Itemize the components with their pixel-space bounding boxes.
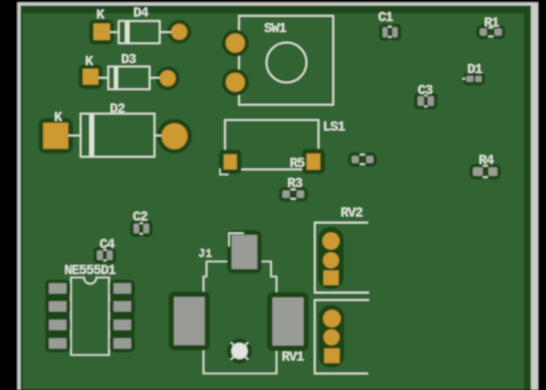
pad C3-2 — [428, 96, 434, 106]
pad D3 cathode halo — [79, 65, 103, 90]
pad D4 anode (round) — [171, 24, 187, 40]
pad J1 left — [174, 297, 205, 345]
pad D4 anode halo — [167, 20, 191, 44]
C3 silk dashes — [424, 95, 427, 97]
diode D3 — [79, 53, 180, 91]
svg-text:RV1: RV1 — [282, 351, 305, 366]
pad J1 right halo — [267, 292, 309, 351]
svg-text:C3: C3 — [418, 84, 433, 99]
trimmer RV1 (lower footprint) — [315, 300, 369, 374]
pad SW1-2 halo — [222, 69, 249, 96]
RV2 upper outline — [315, 223, 369, 293]
svg-text:D1: D1 — [467, 63, 482, 78]
U1 left pads halo column — [46, 280, 71, 353]
pad R4-2 — [489, 167, 498, 176]
LS1 pin1 corner mark — [220, 168, 229, 174]
pad SW1-1 — [226, 34, 245, 53]
pad RV1-1 (round) — [323, 310, 341, 328]
diode D3 body outline — [108, 67, 149, 90]
diode D3 cathode band — [114, 67, 118, 90]
pad D4 cathode (square) — [94, 24, 111, 41]
pad R3-2 — [297, 191, 304, 198]
pad J1 top — [232, 235, 258, 269]
pad U1-5 — [114, 338, 131, 348]
resistor R1 — [476, 16, 505, 39]
diode D4 — [89, 7, 191, 45]
J1 pin1 corner mark — [229, 233, 244, 246]
svg-text:SW1: SW1 — [264, 22, 287, 37]
pad U1-2 — [49, 301, 66, 311]
pad C2-1 — [134, 224, 139, 234]
pad U1-6 halo — [110, 316, 136, 334]
wire D4 right lead — [160, 31, 172, 33]
pad RV2-1 (round) — [322, 232, 339, 249]
svg-text:D2: D2 — [110, 102, 125, 117]
pad U1-4 halo — [45, 335, 71, 353]
pad D3 anode halo — [156, 66, 180, 90]
diode D4 cathode band — [125, 21, 130, 43]
pad LS1-2 — [307, 154, 321, 170]
buzzer LS1 — [219, 120, 345, 175]
pad U1-3 halo — [45, 316, 71, 334]
svg-text:LS1: LS1 — [323, 120, 346, 135]
pad C4-1 — [97, 251, 103, 261]
pad U1-2 halo — [45, 298, 71, 316]
svg-text:R4: R4 — [479, 154, 494, 169]
pad C2 halo — [130, 220, 142, 237]
RV1 lower outline — [315, 300, 369, 374]
pad R1-1 — [480, 29, 487, 36]
wire D3 right lead — [150, 77, 160, 79]
bottom shade — [23, 389, 524, 390]
pad U1-7 — [114, 301, 131, 311]
capacitor C4 — [93, 238, 116, 264]
mounting hole cross — [231, 342, 248, 359]
R2 silk dashes — [360, 154, 365, 156]
switch SW1 — [222, 16, 333, 105]
pad R2-2 — [366, 156, 373, 163]
svg-text:RV2: RV2 — [341, 206, 364, 221]
capacitor C3 — [414, 84, 437, 109]
pad D1-1 — [466, 76, 473, 82]
pad J1 right — [273, 298, 304, 346]
pad D1-2 — [475, 76, 481, 82]
pad C2-2 — [143, 224, 149, 234]
pad U1-4 — [49, 338, 66, 348]
resistor R4 — [469, 154, 501, 180]
pad D4 cathode halo — [89, 20, 114, 45]
LS1 body outline — [225, 120, 319, 169]
pad D2 anode (round) — [162, 123, 188, 149]
pad LS1-1 halo — [219, 150, 242, 175]
R3 silk dashes — [291, 189, 296, 191]
J1 outline — [204, 262, 277, 374]
pad D2 anode halo — [157, 119, 192, 154]
svg-text:C1: C1 — [378, 11, 393, 26]
capacitor C2 — [130, 211, 153, 237]
svg-text:R3: R3 — [287, 177, 302, 192]
pad RV2-2 (round) — [323, 252, 339, 268]
D1 cathode dash — [463, 78, 466, 80]
diode D2 cathode band — [89, 114, 94, 157]
C1 silk dashes — [388, 26, 392, 28]
pad U1-1 halo — [45, 280, 71, 298]
U1 right pads halo column — [110, 280, 135, 353]
pad U1-8 — [114, 283, 131, 293]
wire D2 left lead — [68, 135, 80, 137]
wire D2 right lead — [155, 135, 162, 137]
capacitor C1 — [378, 11, 401, 41]
U1 body outline — [71, 278, 109, 356]
pad SW1-2 — [226, 73, 245, 92]
pad R3 halo — [279, 187, 294, 202]
wire D3 left lead — [98, 77, 108, 79]
mounting hole — [231, 343, 247, 359]
diode D2 body outline — [81, 114, 155, 157]
wire D4 left lead — [110, 31, 120, 33]
mounting hole halo — [227, 339, 252, 364]
pad C1-2 — [392, 27, 397, 37]
pad R2 halo — [348, 152, 362, 167]
op-amp U1 NE555D1 — [45, 264, 135, 355]
pad D2 cathode halo — [39, 118, 74, 154]
SW1 body outline — [239, 16, 333, 105]
pad RV2-3 (square) — [324, 271, 339, 286]
C4 silk dashes — [103, 249, 106, 251]
pad LS1-2 halo — [302, 149, 325, 174]
pad J1 top halo — [227, 230, 262, 273]
svg-text:D4: D4 — [133, 7, 148, 22]
R4 silk dashes — [483, 165, 488, 167]
trimmer RV2 (upper footprint) — [315, 206, 369, 292]
pad RV1-3 (square) — [324, 348, 339, 363]
pad U1-7 halo — [110, 298, 136, 316]
C2 silk dashes — [140, 222, 143, 224]
pad SW1-1 halo — [222, 30, 249, 57]
pad R2-1 — [352, 156, 359, 163]
resistor R3 — [279, 177, 308, 202]
svg-text:J1: J1 — [198, 248, 212, 261]
pad D2 cathode (square) — [43, 123, 68, 149]
svg-text:D3: D3 — [121, 53, 136, 68]
RV1 lower pads halo — [319, 305, 345, 368]
pad R3-1 — [282, 191, 289, 198]
resistor R2 (unlabeled smd) — [348, 152, 377, 167]
pad C1 halo — [379, 24, 391, 41]
pad LS1-1 — [224, 154, 237, 169]
svg-text:C2: C2 — [133, 211, 148, 226]
pad C4 halo — [93, 247, 106, 264]
diode D1 — [463, 63, 486, 85]
pad C1-1 — [383, 27, 388, 37]
RV2 upper pads halo — [318, 227, 344, 289]
pad C4-2 — [107, 251, 113, 261]
pad U1-1 — [49, 283, 66, 293]
svg-text:C4: C4 — [100, 238, 115, 253]
pad D3 cathode (square) — [83, 69, 99, 85]
pad R1 halo — [476, 25, 490, 39]
pad C3-1 — [418, 96, 424, 106]
pad U1-5 halo — [110, 335, 136, 353]
diode D4 body outline — [119, 21, 160, 43]
connector J1 — [169, 230, 309, 373]
pad RV1-2 (round) — [324, 329, 340, 345]
pad R1-2 — [495, 29, 502, 36]
R1 silk dashes — [488, 27, 493, 29]
pad C3 halo — [414, 93, 427, 110]
svg-text:R5: R5 — [290, 157, 305, 172]
SW1 button circle — [267, 43, 307, 83]
pad R4-1 — [473, 167, 483, 176]
pad R4 halo — [469, 164, 486, 180]
pad U1-8 halo — [110, 280, 136, 298]
svg-text:R1: R1 — [484, 16, 499, 31]
diode D2 — [39, 102, 193, 157]
pad U1-6 — [114, 320, 131, 330]
pad D3 anode (round) — [160, 70, 176, 86]
pad J1 left halo — [169, 292, 211, 351]
pad D1 halo — [463, 72, 477, 85]
pad U1-3 — [49, 320, 66, 330]
